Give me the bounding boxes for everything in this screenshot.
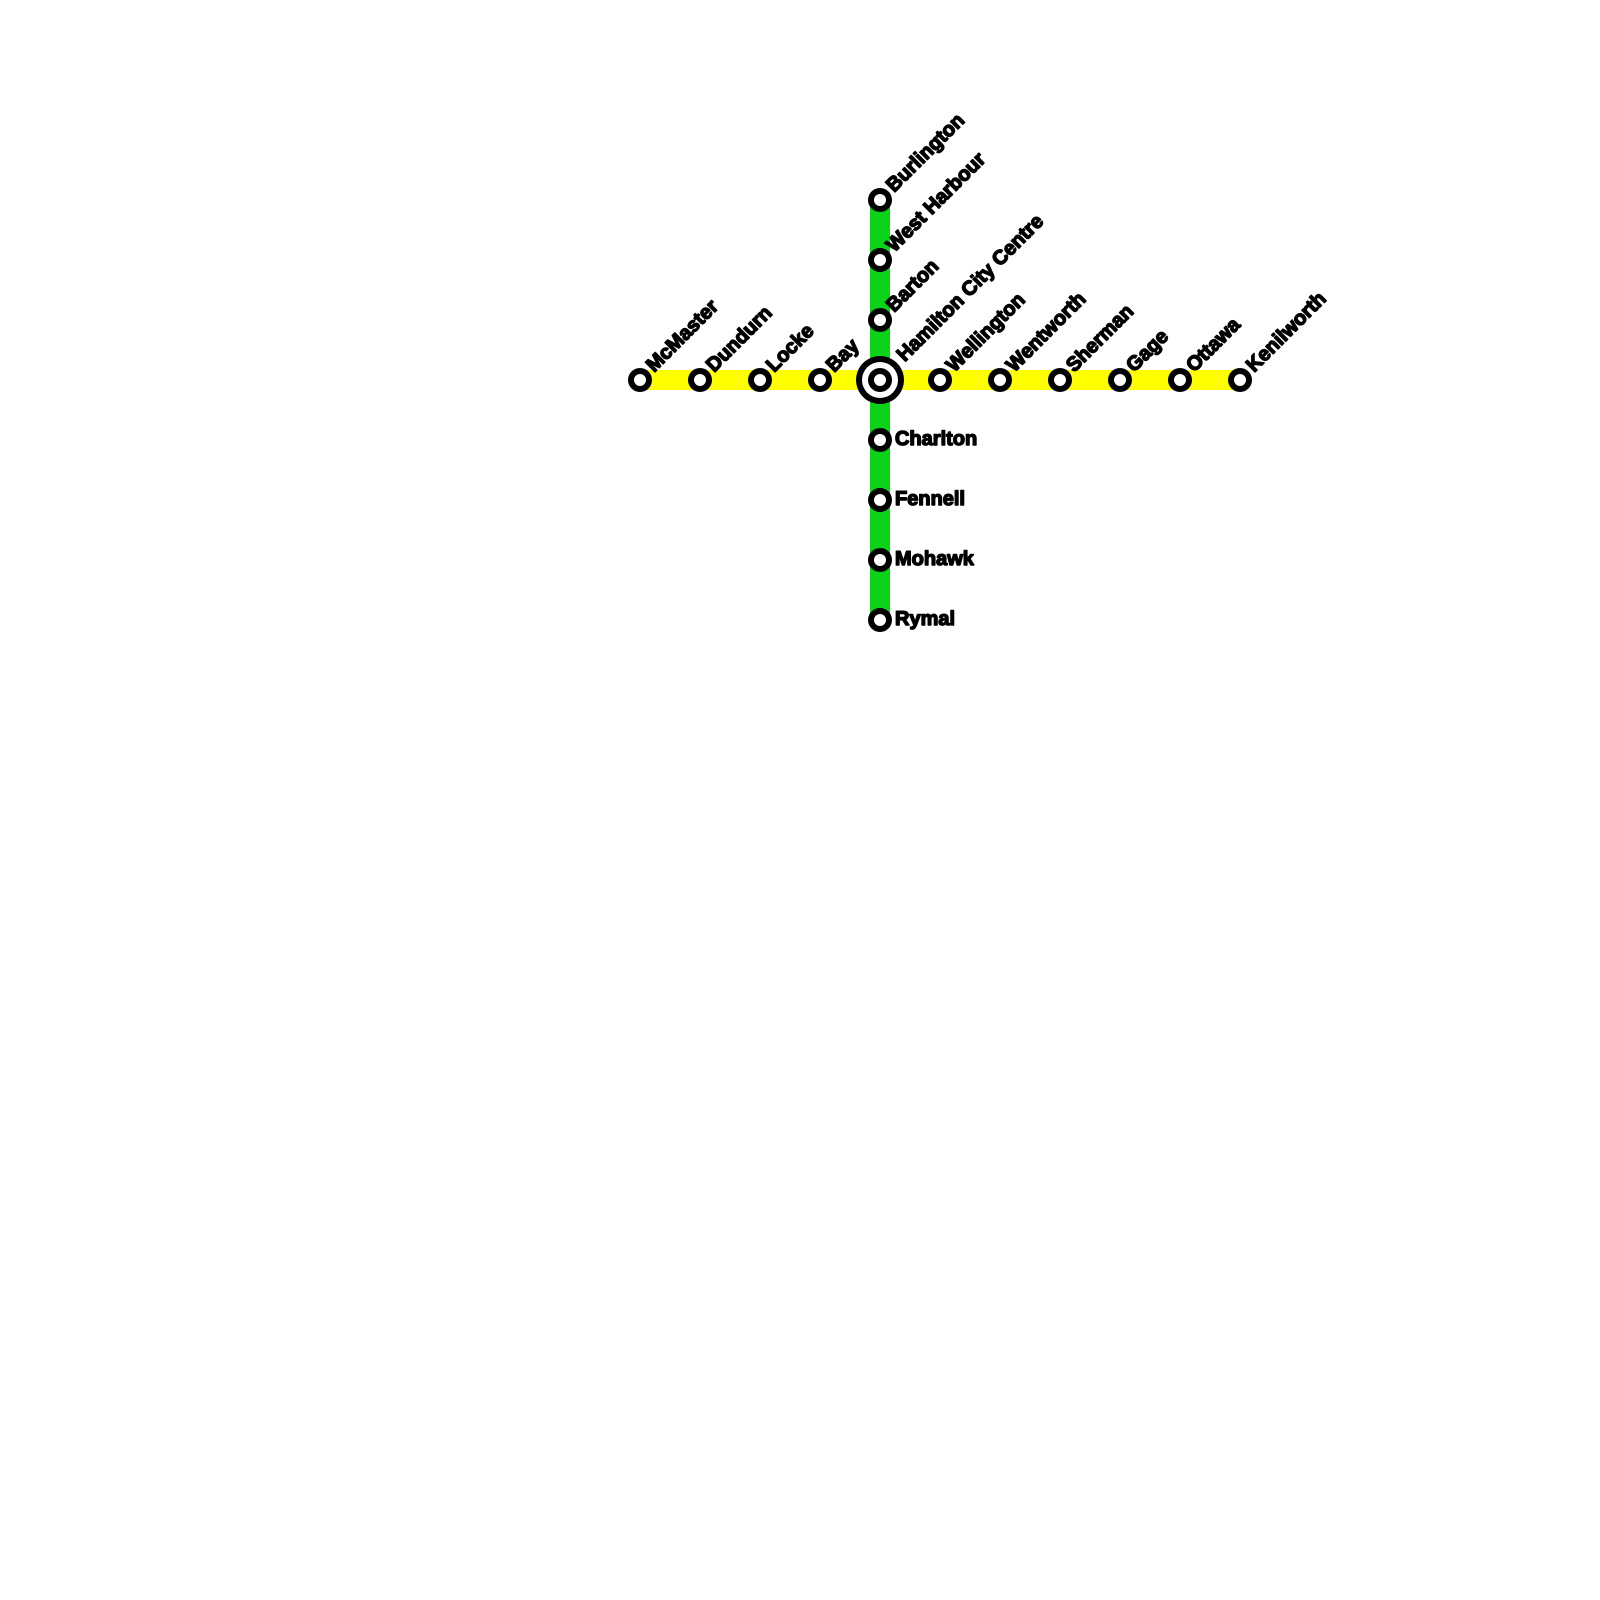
label Ottawa — [1185, 316, 1242, 373]
label Locke — [765, 322, 815, 372]
label Kenilworth — [1245, 290, 1327, 372]
station Dundurn — [688, 305, 772, 392]
station Hamilton City Centre (interchange) — [856, 213, 1047, 404]
label Barton — [885, 258, 939, 312]
label Wentworth — [1004, 291, 1086, 373]
station Wentworth — [988, 291, 1086, 392]
station Locke — [748, 322, 815, 392]
station Fennell — [868, 488, 964, 512]
station Wellington — [928, 292, 1028, 392]
label Mohawk — [896, 551, 974, 566]
label McMaster — [645, 298, 719, 372]
label Sherman — [1064, 303, 1134, 373]
station West Harbour — [868, 150, 987, 272]
station Mohawk — [868, 548, 974, 572]
label Dundurn — [705, 305, 773, 373]
label Rymal — [896, 611, 953, 630]
station Barton — [868, 258, 939, 332]
wire yellow B-Line (horizontal McMaster-Kenilworth) — [640, 370, 1240, 390]
station Kenilworth — [1228, 290, 1326, 392]
station Burlington — [868, 112, 968, 212]
station McMaster — [628, 298, 719, 392]
wire green A-Line (vertical Burlington-Rymal) — [870, 200, 890, 620]
label Fennell — [896, 491, 963, 506]
label Charlton — [896, 431, 976, 446]
station Sherman — [1048, 303, 1134, 392]
label Bay — [825, 337, 863, 375]
station Gage — [1108, 328, 1172, 392]
label Burlington — [885, 112, 968, 195]
station Bay — [808, 337, 863, 392]
station Charlton — [868, 428, 976, 452]
station Ottawa — [1168, 316, 1242, 392]
label West Harbour — [884, 150, 987, 253]
label Wellington — [944, 292, 1028, 376]
label Gage — [1125, 328, 1172, 375]
label Hamilton City Centre — [895, 213, 1047, 365]
station Rymal — [868, 608, 954, 632]
